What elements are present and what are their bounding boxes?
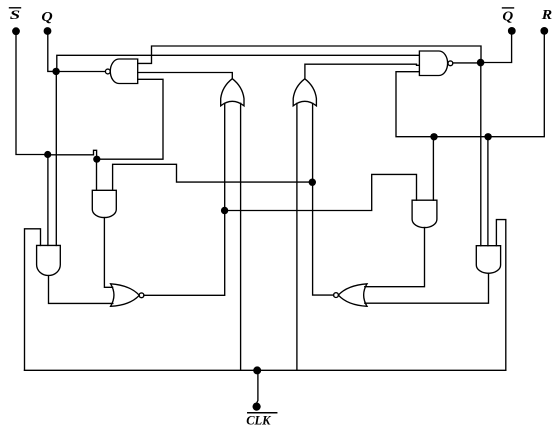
wire node R2 down to AND U8 input 2 (487, 137, 489, 246)
wire CLK rail right riser to AND U8 input 3 (496, 220, 505, 371)
wire AND U7 output down and left to NOR U10 upper input (365, 228, 425, 287)
node B junction (93, 156, 100, 163)
node CLK junction (253, 366, 261, 374)
AND gate U6 (lower-left, pointing down) (37, 245, 61, 275)
wire CLK rail (25, 369, 506, 371)
NOR gate U10 (pointing left, mirrored) (334, 284, 367, 307)
wire OR U4 output up and right to NAND U2 input 2 (305, 64, 419, 79)
wire node C right, up, right to AND U7 input 1 (225, 174, 417, 210)
wire NOR U9 output right and up to node C (144, 211, 225, 296)
svg-text:Q: Q (502, 10, 513, 25)
svg-text:S: S (10, 7, 20, 22)
svg-text:R: R (541, 7, 553, 22)
wire S-bar from terminal down and right (16, 35, 48, 154)
node Qbar junction (477, 59, 485, 67)
wire node B right, up, to NAND U1 bottom input (97, 79, 163, 159)
AND gate U8 (lower-right, pointing down) (476, 246, 500, 274)
node C junction (221, 207, 228, 214)
wire node Qbar right and up to terminal Q-bar (481, 35, 512, 63)
node Q junction (52, 68, 59, 75)
wire OR U3 left input down to node C (224, 103, 226, 210)
OR gate U4 (pointing up) (293, 79, 316, 106)
wire Q from terminal down to node Q (48, 35, 56, 71)
AND gate U5 (small, upper-left, pointing down) (92, 190, 116, 217)
output terminal Q (41, 10, 52, 35)
wire OR U4 right input down to node D (312, 103, 314, 182)
node R2 junction (484, 133, 491, 140)
output terminal Q-bar (502, 8, 515, 35)
wire S junction down to AND U6 input (47, 155, 49, 246)
svg-text:CLK: CLK (246, 413, 272, 427)
wire node Q down to AND U6 input (55, 71, 57, 245)
node D junction (309, 179, 316, 186)
wire node R1 down to AND U7 input 2 (432, 137, 434, 200)
wire OR U3 right input down to CLK rail (240, 103, 242, 370)
AND gate U7 (right, pointing down) (412, 200, 437, 227)
wire node Qbar down to AND U8 input 1 (480, 63, 482, 246)
wire NAND U1 input 2 to OR U3 output (138, 73, 233, 79)
wire AND U5 output down to NOR U9 upper input (104, 218, 112, 288)
wire AND U8 output down and left to NOR U10 lower input (365, 273, 489, 303)
svg-text:Q: Q (41, 10, 52, 25)
wire CLK rail left riser to AND U6 input 1 (25, 229, 41, 370)
wire CLK stub down to terminal (257, 370, 258, 403)
node R1 junction (430, 133, 437, 140)
wire NAND U1 input 1 up and right to node Qbar (cross-couple) (138, 46, 481, 63)
OR gate U3 (pointing up) (221, 79, 244, 106)
wire node D left and up to AND U5 input 2 (113, 164, 313, 190)
wire OR U4 left input down to CLK rail (296, 103, 298, 370)
wire NOR U10 output left and up to node D (313, 182, 334, 295)
wire R from terminal down and left (396, 35, 544, 137)
NAND gate U1 (left, mirrored) (105, 59, 137, 84)
input terminal R (540, 7, 552, 35)
wire AND U6 output down to NOR U9 lower input (49, 276, 113, 304)
NAND gate U2 (right) (419, 51, 452, 76)
wire node Q to NAND U1 output bubble (56, 71, 105, 73)
input terminal S-bar (10, 7, 21, 35)
NOR gate U9 (pointing right) (111, 284, 144, 307)
node S junction (44, 151, 51, 158)
input terminal CLK-bar (246, 403, 277, 428)
wire node Q up and right to NAND U2 input 1 (57, 55, 420, 71)
wire S junction bump over to node B (48, 150, 97, 159)
wire NAND U2 output bubble to node Qbar (453, 62, 481, 64)
wire node B down to AND U5 input (96, 159, 98, 190)
